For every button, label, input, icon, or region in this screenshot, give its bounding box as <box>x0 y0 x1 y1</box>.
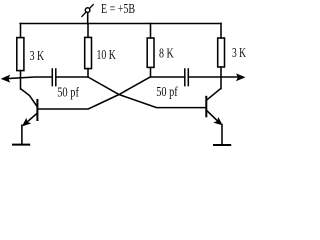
svg-text:8 K: 8 K <box>159 46 174 61</box>
resistor R3 8K <box>147 24 154 78</box>
wire left collector line <box>8 77 52 79</box>
svg-text:10 K: 10 K <box>97 47 116 62</box>
wire top rail +5V <box>20 23 221 25</box>
output arrow right <box>237 74 245 80</box>
svg-text:3 K: 3 K <box>30 48 45 63</box>
wire right emitter to ground <box>221 125 223 145</box>
ground (right) <box>214 144 230 146</box>
terminal E (switch contact) <box>82 5 93 24</box>
capacitor C1 50pf <box>52 69 56 86</box>
wire left emitter to ground <box>21 125 23 144</box>
resistor R2 10K <box>85 24 92 78</box>
wire cross-coupling 8K to left base <box>38 77 150 109</box>
svg-text:3 K: 3 K <box>232 45 246 60</box>
output arrow left <box>2 75 10 82</box>
wire cross-coupling 10K to right base <box>88 77 206 108</box>
svg-text:50 pf: 50 pf <box>156 84 178 99</box>
svg-text:50 pf: 50 pf <box>57 84 79 99</box>
transistor Q1 (left) <box>21 89 37 126</box>
resistor R4 3K (right) <box>218 24 225 89</box>
transistor Q2 (right) <box>206 88 222 125</box>
capacitor C2 50pf <box>185 69 189 86</box>
svg-text:E = +5B: E = +5B <box>101 1 135 16</box>
ground (left) <box>13 144 29 146</box>
wire right collector line <box>151 76 185 78</box>
resistor R1 3K (left) <box>17 24 24 90</box>
